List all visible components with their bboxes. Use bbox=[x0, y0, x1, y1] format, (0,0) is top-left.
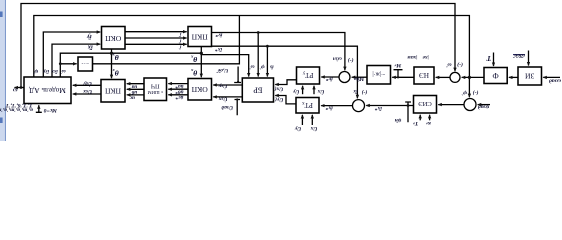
wire psi-n parameter bbox=[405, 102, 411, 122]
wire OKP-top to PKP-top 1 bbox=[125, 31, 187, 33]
wire RT-top stub 2 bbox=[313, 86, 315, 94]
block PKP top bbox=[188, 27, 212, 47]
svg-text:U̇у(: U̇у( bbox=[274, 96, 283, 104]
wire theta drop to PKP bottom block bbox=[111, 49, 113, 78]
wire speed sum to RS bbox=[436, 76, 450, 78]
svg-text:ω̂эл: ω̂эл bbox=[333, 56, 342, 62]
block module bbox=[78, 57, 93, 71]
svg-text:ОКП: ОКП bbox=[191, 85, 208, 94]
wire RS to divider bbox=[392, 76, 413, 78]
svg-text:|хам: |хам bbox=[407, 54, 417, 60]
svg-text:ψ̂н: ψ̂н bbox=[395, 117, 402, 123]
junction M limit entry bbox=[397, 76, 399, 78]
svg-text:U̇ѕх: U̇ѕх bbox=[83, 88, 92, 96]
wire PCH to PKP-bot 1 bbox=[127, 83, 144, 85]
wire omega feedback rail bbox=[21, 4, 455, 88]
junction U set entry lower bbox=[236, 98, 238, 100]
wire ZI to F bbox=[509, 76, 518, 78]
junction theta rail node 1 bbox=[110, 52, 113, 55]
svg-text:U̇у: U̇у bbox=[292, 88, 299, 96]
junction psi-n entry bbox=[407, 104, 410, 107]
block RS bbox=[414, 67, 434, 84]
junction BR tap lower bbox=[266, 45, 269, 48]
svg-text:U̇ѕу: U̇ѕу bbox=[218, 83, 227, 91]
svg-text:НЭ: НЭ bbox=[419, 71, 429, 79]
svg-text:|хе: |хе bbox=[422, 54, 429, 60]
svg-text:ЗИ: ЗИ bbox=[525, 72, 535, 81]
svg-text:ψзад: ψзад bbox=[478, 103, 490, 110]
block RP bbox=[414, 96, 437, 114]
svg-text:U̇х(: U̇х( bbox=[274, 86, 284, 94]
svg-text:ОКП: ОКП bbox=[105, 34, 122, 43]
wire torque sum to RT-top bbox=[321, 76, 339, 78]
wire RP bottom stub 1 bbox=[419, 115, 421, 121]
svg-text:Мс=0: Мс=0 bbox=[43, 107, 57, 113]
wire BR to OKP-mid upper bbox=[213, 84, 242, 86]
wire theta rail left bbox=[60, 53, 201, 77]
svg-text:uа: uа bbox=[131, 83, 137, 89]
block F bbox=[484, 68, 507, 84]
wire PKP-top lower output to flux sum bbox=[212, 46, 358, 98]
wire PKP-top upper output to torque sum bbox=[212, 33, 345, 71]
label eps dop dash bbox=[513, 54, 525, 56]
junction U set entry upper bbox=[237, 81, 239, 83]
block OKP mid bbox=[188, 79, 212, 101]
wire U set bar upper bbox=[234, 67, 241, 83]
svg-text:U̇у: U̇у bbox=[294, 125, 301, 133]
wire OKP-mid to PCH 3 bbox=[168, 94, 188, 96]
page edge strip bbox=[0, 0, 5, 141]
wire ZI parameter bbox=[528, 51, 530, 66]
block RT top bbox=[297, 67, 320, 84]
svg-text:і̂х: і̂х bbox=[87, 44, 93, 51]
svg-text:і̂ѕх: і̂ѕх bbox=[51, 68, 58, 74]
wire RT-top to BR bbox=[275, 80, 296, 85]
block BR bbox=[242, 78, 273, 102]
svg-text:Модель АД: Модель АД bbox=[29, 86, 66, 95]
svg-text:і̂ѕ: і̂ѕ bbox=[270, 64, 274, 70]
wire psi feedback rail bbox=[34, 16, 470, 98]
wire psi ref input bbox=[478, 104, 490, 106]
svg-text:U̇зад: U̇зад bbox=[221, 104, 233, 112]
wire tap to BR input 3 bbox=[266, 46, 268, 76]
svg-text:u̇с*: u̇с* bbox=[175, 94, 183, 101]
wire i_sx feedback bbox=[52, 44, 100, 77]
wire RP bottom stub 2 bbox=[429, 115, 431, 121]
wire BR to OKP-mid lower bbox=[213, 96, 242, 98]
blocks bbox=[24, 27, 542, 114]
limit bar at divider input bbox=[394, 70, 403, 78]
wire divider to torque sum bbox=[352, 76, 367, 78]
wire tap to BR input 2 bbox=[257, 33, 259, 77]
svg-text:(-): (-) bbox=[457, 61, 463, 68]
svg-text:U̇ѕу: U̇ѕу bbox=[83, 80, 92, 88]
wire Mc input bbox=[36, 105, 42, 112]
svg-text:і̂х: і̂х bbox=[353, 88, 358, 94]
svg-text:СИЭ: СИЭ bbox=[418, 100, 432, 107]
wire F to speed sum bbox=[462, 76, 484, 78]
svg-text:(-): (-) bbox=[348, 57, 354, 64]
summing circle speed bbox=[450, 72, 460, 82]
svg-text:U̇ѕх: U̇ѕх bbox=[218, 96, 227, 104]
junction theta rail node 2 bbox=[200, 52, 203, 55]
block PCH bbox=[144, 78, 167, 101]
svg-text:U̇х: U̇х bbox=[317, 88, 324, 96]
svg-text:БР: БР bbox=[253, 85, 263, 94]
block PKP bottom bbox=[101, 80, 125, 103]
label PCH lines bbox=[148, 82, 163, 95]
wire F parameter bbox=[493, 53, 495, 67]
block texts (rotated 180) bbox=[29, 33, 534, 110]
wire RP to flux sum bbox=[366, 105, 413, 107]
summing circle flux bbox=[464, 99, 476, 111]
wire into module box bbox=[60, 63, 76, 65]
svg-text:М⸗: М⸗ bbox=[394, 62, 402, 68]
wire theta drop to OKP mid block bbox=[200, 47, 202, 78]
svg-text:Т: Т bbox=[486, 54, 491, 63]
svg-text:-·|ж·|: -·|ж·| bbox=[372, 71, 385, 77]
svg-text:і̂у*: і̂у* bbox=[326, 76, 333, 83]
svg-text:ωзад: ωзад bbox=[549, 78, 561, 85]
wire i_sy feedback bbox=[43, 32, 100, 77]
svg-text:(-): (-) bbox=[473, 89, 479, 96]
page background bbox=[0, 0, 562, 141]
block ZI bbox=[518, 67, 542, 85]
svg-text:і̂х*: і̂х* bbox=[215, 46, 222, 53]
summing circle flux current bbox=[353, 100, 365, 112]
wire OKP-top to PKP-top 2 bbox=[125, 37, 187, 39]
block divider bbox=[367, 66, 391, 85]
summing circle torque bbox=[339, 72, 350, 83]
svg-text:Т⸗: Т⸗ bbox=[413, 120, 418, 126]
wire PKP-bot to AD model 1 bbox=[73, 84, 101, 86]
svg-text:М̂дв: М̂дв bbox=[354, 76, 366, 83]
wire omega output bbox=[15, 87, 25, 89]
wire PKP-bot to AD model 2 bbox=[73, 93, 101, 95]
wire PCH to PKP-bot 3 bbox=[127, 94, 144, 96]
block AD model bbox=[24, 77, 71, 104]
svg-text:і̂х*: і̂х* bbox=[325, 105, 332, 112]
wire PCH to PKP-bot 2 bbox=[127, 88, 144, 90]
svg-text:ПКП: ПКП bbox=[191, 33, 208, 42]
junction omega rail tap bbox=[20, 86, 23, 89]
wire RT-bot stub 2 bbox=[311, 115, 313, 125]
svg-text:а,'т,'ɑ,'т,'а,'т: а,'т,'ɑ,'т,'а,'т bbox=[0, 106, 33, 112]
block RT bottom bbox=[296, 98, 319, 114]
svg-text:і̂у: і̂у bbox=[87, 33, 92, 40]
wire flux sum to RT-bot bbox=[321, 105, 352, 107]
wire omega ref input bbox=[543, 76, 560, 78]
svg-text:(-): (-) bbox=[361, 89, 367, 96]
svg-text:і̂ѕу: і̂ѕу bbox=[42, 68, 49, 74]
svg-text:ПКП: ПКП bbox=[104, 86, 121, 95]
wire module box to psi rail bbox=[93, 16, 240, 64]
wire flux err sum to RP bbox=[438, 104, 464, 106]
junction BR tap upper bbox=[257, 31, 260, 34]
svg-text:Ф: Ф bbox=[492, 71, 498, 80]
block OKP top bbox=[102, 27, 126, 50]
svg-text:-··-: -··- bbox=[81, 60, 88, 66]
wire OKP-mid to PCH 1 bbox=[168, 83, 188, 85]
junction module box tap bbox=[59, 62, 62, 65]
wire RT-bot to BR bbox=[275, 96, 296, 104]
wire OKP-mid to PCH 2 bbox=[168, 88, 188, 90]
wire RT-top stub 1 bbox=[302, 86, 304, 94]
signal labels (rotated 180) bbox=[0, 31, 561, 133]
wire RT-bot stub 1 bbox=[301, 115, 303, 125]
junction psi drop crossing bbox=[468, 76, 471, 79]
svg-text:і̂у*: і̂у* bbox=[215, 32, 222, 39]
svg-text:к⸗: к⸗ bbox=[426, 120, 431, 126]
svg-text:ПЧ: ПЧ bbox=[151, 82, 160, 89]
svg-text:ω: ω bbox=[13, 87, 18, 94]
svg-text:uс: uс bbox=[129, 95, 135, 101]
wire OKP-top to PKP-top 3 bbox=[125, 43, 187, 45]
svg-text:і̂х*: і̂х* bbox=[375, 105, 382, 112]
svg-text:U̇х: U̇х bbox=[310, 125, 317, 133]
wire theta rail right bbox=[201, 55, 248, 77]
wire U set bar lower bbox=[235, 100, 241, 116]
svg-text:с ШИМ: с ШИМ bbox=[148, 90, 163, 95]
